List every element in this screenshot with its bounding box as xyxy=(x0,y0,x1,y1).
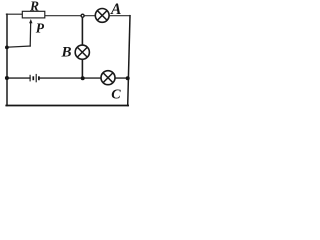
svg-text:A: A xyxy=(110,1,121,18)
svg-text:R: R xyxy=(29,0,39,13)
svg-text:P: P xyxy=(36,20,45,35)
svg-text:C: C xyxy=(111,87,121,102)
svg-text:B: B xyxy=(61,45,72,61)
